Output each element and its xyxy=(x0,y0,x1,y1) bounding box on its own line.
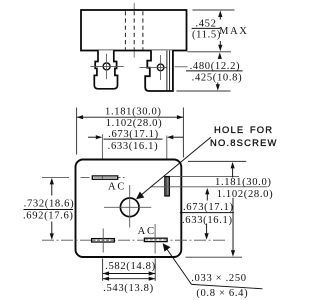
terminal T1 (left faston blade) xyxy=(94,50,117,89)
svg-text:1.181(30.0): 1.181(30.0) xyxy=(215,177,272,188)
fraction bar .452/(11.5) xyxy=(192,27,220,29)
svg-text:AC: AC xyxy=(108,182,126,193)
fraction bar .732/.692 xyxy=(24,209,74,211)
svg-text:MAX: MAX xyxy=(219,26,249,37)
svg-text:.633(16.1): .633(16.1) xyxy=(182,215,233,226)
svg-text:.543(13.8): .543(13.8) xyxy=(103,283,154,294)
svg-text:1.102(28.0): 1.102(28.0) xyxy=(106,118,163,129)
dimension .673 top right arrow xyxy=(172,136,183,138)
extension line top-right (body right edge) xyxy=(182,108,184,158)
extension/centerline col at slot AC top xyxy=(101,134,103,159)
right dimension 1.181/1.102 up arrow xyxy=(231,162,235,169)
fraction bar .673/.633 top xyxy=(104,138,163,140)
hidden hole dashed line left xyxy=(124,11,126,49)
dimension .673 top left arrow xyxy=(88,136,97,138)
right .673 down arrow xyxy=(206,224,208,235)
svg-text:HOLE FOR: HOLE FOR xyxy=(214,124,273,135)
dimension line 1.181 top with arrows xyxy=(77,116,184,118)
terminal T2 crosshair vertical xyxy=(160,55,162,80)
svg-text:.425(10.8): .425(10.8) xyxy=(192,73,243,84)
centerline row through AC slot xyxy=(81,177,128,179)
svg-text:.692(17.6): .692(17.6) xyxy=(23,210,74,221)
svg-text:.452: .452 xyxy=(195,19,216,30)
centerline row bottom slots xyxy=(42,239,228,241)
centerline above body xyxy=(133,3,135,11)
svg-text:.732(18.6): .732(18.6) xyxy=(24,198,75,209)
terminal T2 hole xyxy=(157,64,164,71)
centerline row top slots (left ext) xyxy=(42,177,69,179)
dimension line .543 xyxy=(103,278,156,280)
slot right (+) xyxy=(165,177,169,196)
left dimension down arrow xyxy=(51,222,53,235)
svg-text:.633(16.1): .633(16.1) xyxy=(108,141,159,152)
svg-text:.673(17.1): .673(17.1) xyxy=(183,202,234,213)
leader underline slanted xyxy=(192,284,263,288)
dimension .425 down arrow xyxy=(217,83,219,86)
dimension .480 up arrow xyxy=(218,52,222,59)
terminal T2 (right faston blade with edge-on blade) xyxy=(145,50,173,91)
hidden hole dashed centerline xyxy=(133,11,135,49)
side view body xyxy=(81,10,187,51)
left dimension .732/.692 up arrow xyxy=(50,178,54,185)
slot AC top xyxy=(92,176,117,179)
hole crosshair vertical xyxy=(129,185,131,228)
svg-text:.673(17.1): .673(17.1) xyxy=(108,129,159,140)
mounting hole xyxy=(120,198,139,217)
right side: extension line body top xyxy=(188,160,246,162)
terminal T2 crosshair extension right xyxy=(175,66,188,68)
svg-text:.582(14.8): .582(14.8) xyxy=(105,261,156,272)
right 1.181 down arrow shaft xyxy=(232,198,234,252)
bottom dimension extension left xyxy=(102,259,104,281)
hole crosshair horizontal xyxy=(104,206,151,208)
right .673 up arrow xyxy=(205,188,209,195)
hidden hole dashed line right xyxy=(142,11,144,49)
extension line terminal tip xyxy=(177,90,231,92)
svg-text:(11.5): (11.5) xyxy=(192,30,221,41)
leader arrow to bottom-right slot xyxy=(163,243,171,251)
svg-text:AC: AC xyxy=(138,226,156,237)
fraction bar .673/.633 right xyxy=(180,212,234,214)
terminal T1 hole xyxy=(103,63,110,70)
top view body xyxy=(76,160,182,258)
extension line body top right xyxy=(193,9,235,11)
bottom dimension extension right xyxy=(154,259,156,281)
extension line top-left (body left edge) xyxy=(76,108,78,155)
svg-text:1.102(28.0): 1.102(28.0) xyxy=(217,189,274,200)
dimension .452 MAX down arrow xyxy=(219,41,221,46)
terminal T2 inner edge line a xyxy=(166,51,168,91)
dimension line .582 xyxy=(103,273,156,275)
svg-text:.480(12.2): .480(12.2) xyxy=(190,61,241,72)
slot bottom right centerline vertical xyxy=(154,224,156,254)
terminal T2 inner edge line b xyxy=(169,51,171,91)
svg-text:NO.8SCREW: NO.8SCREW xyxy=(210,137,278,148)
slot bottom left xyxy=(92,239,115,242)
svg-text:1.181(30.0): 1.181(30.0) xyxy=(105,107,162,118)
fraction bar .480/.425 xyxy=(186,70,243,72)
terminal T1 crosshair horizontal xyxy=(90,65,123,67)
extension/centerline col at right slot xyxy=(166,136,168,160)
leader arrow to mounting hole xyxy=(136,192,144,200)
extension line body bottom right xyxy=(188,51,232,53)
svg-text:.033 × .250: .033 × .250 xyxy=(191,273,247,284)
centerline below body between terminals xyxy=(133,51,135,58)
right slot horizontal centerline / fraction bar 1.181 right xyxy=(150,186,267,188)
svg-text:(0.8 × 6.4): (0.8 × 6.4) xyxy=(196,288,248,299)
terminal T2 crosshair horizontal xyxy=(140,66,167,68)
slot bottom right xyxy=(144,238,167,241)
centerline row right fragments xyxy=(170,175,239,177)
extension line body bottom right xyxy=(186,256,243,258)
dimension .452 MAX up arrow xyxy=(218,11,222,18)
slot bottom left centerline vertical xyxy=(102,229,104,253)
terminal T1 crosshair vertical xyxy=(106,54,108,79)
